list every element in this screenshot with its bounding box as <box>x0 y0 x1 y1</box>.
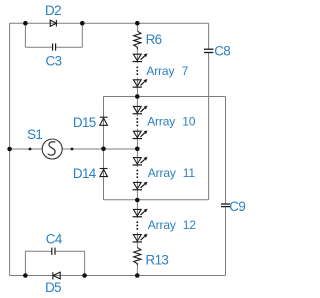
diode D14 <box>100 169 108 177</box>
svg-text:D2: D2 <box>45 3 61 18</box>
svg-text:Array7: Array7 <box>146 64 188 78</box>
diode D15 <box>100 117 108 125</box>
wire main column segment 5 <box>136 180 138 218</box>
dotted continuation array 7 <box>136 66 138 75</box>
svg-text:D15: D15 <box>73 115 96 130</box>
LED array 11 diode 1 <box>133 157 148 165</box>
capacitor C3 <box>53 43 56 50</box>
wire C4 branch top left <box>25 250 51 252</box>
wire C3 branch right <box>81 23 83 47</box>
LED array 7 diode 1 <box>133 53 148 61</box>
capacitor C4 <box>52 248 55 255</box>
svg-text:Array10: Array10 <box>147 115 196 129</box>
wire C4 branch top right <box>56 250 85 252</box>
svg-text:R13: R13 <box>146 253 169 268</box>
svg-text:C8: C8 <box>214 44 230 59</box>
diode D5 <box>53 272 60 279</box>
svg-text:C4: C4 <box>46 231 63 246</box>
wire main column segment 3 <box>136 78 138 116</box>
svg-text:D5: D5 <box>45 280 61 295</box>
junction right of D5/C4 block <box>82 273 87 278</box>
dotted continuation array 10 <box>136 118 138 127</box>
wire C3 branch top left <box>25 46 52 48</box>
junction bottom of main column <box>135 273 140 278</box>
svg-text:R6: R6 <box>146 32 162 47</box>
svg-text:C3: C3 <box>46 53 62 68</box>
pin dot S1 left <box>29 148 32 151</box>
wire main column segment 1 <box>136 23 138 31</box>
wire node y96 horizontal <box>104 96 226 98</box>
svg-text:Array11: Array11 <box>148 166 196 180</box>
svg-text:D14: D14 <box>73 166 97 181</box>
LED array 11 diode 2 <box>133 182 148 190</box>
wire top rail <box>10 22 209 24</box>
wire bottom rail <box>10 275 226 277</box>
wire C9 column lower <box>225 207 227 275</box>
junction at top of C3 branch <box>23 21 28 26</box>
wire main column segment 2 <box>136 49 138 63</box>
svg-text:Array12: Array12 <box>148 218 197 232</box>
wire main column segment 7 <box>136 265 138 275</box>
resistor R13 <box>134 248 141 266</box>
wire main column segment 6 <box>136 232 138 247</box>
wire C9 column upper <box>225 97 227 204</box>
LED array 7 diode 2 <box>133 79 148 87</box>
wire C3 branch top right <box>56 46 82 48</box>
pin dot S1 right <box>71 148 74 151</box>
wire left rail <box>9 23 11 275</box>
wire C4 branch right <box>84 251 86 275</box>
capacitor C8 <box>204 49 213 52</box>
junction at right of D2/C3 block <box>80 21 85 26</box>
svg-text:C9: C9 <box>229 199 245 214</box>
junction node y200 main column <box>135 198 140 203</box>
dotted continuation array 12 <box>136 221 138 230</box>
LED array 12 diode 2 <box>133 234 148 242</box>
LED array 12 diode 1 <box>133 209 148 217</box>
wire C4 branch left <box>24 251 26 275</box>
wire diode branch vertical <box>103 97 105 200</box>
junction left rail middle <box>7 147 12 152</box>
junction diode branch middle <box>101 147 106 152</box>
LED array 10 diode 1 <box>133 106 148 114</box>
wire diode branch bottom horizontal <box>104 199 138 201</box>
capacitor C9 <box>221 204 230 207</box>
dotted continuation array 11 <box>136 170 138 179</box>
diode D2 <box>50 20 56 27</box>
junction top of main column <box>135 21 140 26</box>
wire C8 column lower <box>208 53 210 200</box>
LED array 10 diode 2 <box>133 130 148 138</box>
source S1 <box>42 139 62 159</box>
junction node y149 main column <box>135 147 140 152</box>
wire middle S1 row <box>10 148 138 150</box>
junction node y96 main column <box>135 94 140 99</box>
wire node y200 horizontal <box>137 199 208 201</box>
wire C3 branch left <box>24 23 26 47</box>
resistor R6 <box>134 31 141 49</box>
svg-text:S1: S1 <box>27 127 42 142</box>
junction left of D5/C4 block <box>23 273 28 278</box>
wire main column segment 4 <box>136 129 138 167</box>
wire C8 column upper <box>208 23 210 48</box>
